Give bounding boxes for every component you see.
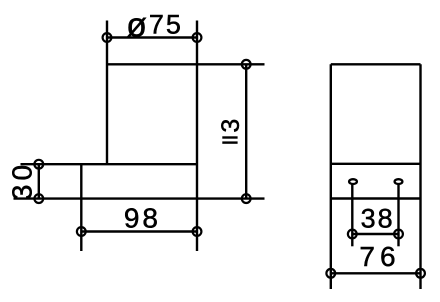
- side view: cup bottom / plate top edge: [331, 163, 421, 165]
- dimension 113 bottom terminator circle: [242, 194, 251, 203]
- dimension 38 right extension line: [397, 185, 399, 247]
- dimension ø75 right terminator circle: [193, 33, 202, 42]
- dimension 98 line: [81, 230, 197, 232]
- svg-text:ø75: ø75: [126, 7, 183, 45]
- svg-text:76: 76: [359, 241, 400, 272]
- svg-text:38: 38: [361, 204, 395, 234]
- dimension 38 left extension line: [351, 185, 353, 247]
- svg-text:98: 98: [124, 202, 161, 233]
- dimension 30 top terminator circle: [34, 160, 43, 169]
- dimension 98 left terminator circle: [77, 227, 86, 236]
- dimension 76 right terminator circle: [416, 269, 425, 278]
- dimension ø75 left terminator circle: [103, 33, 112, 42]
- dimension 98 right terminator circle: [193, 227, 202, 236]
- side view: right edge + 76 right extension line: [419, 64, 421, 289]
- dimension 76 left terminator circle: [326, 269, 335, 278]
- dimension 38 right terminator circle: [394, 230, 403, 239]
- side view: left edge + 76 left extension line: [330, 64, 332, 289]
- front view: cup top edge + 113 top extension line: [107, 63, 265, 65]
- dimension 76 line: [331, 272, 421, 274]
- dimension 113 line: [245, 64, 247, 198]
- front view: cup right wall + plate right edge + 98 right extension line: [196, 21, 198, 252]
- side view: top edge: [331, 63, 421, 65]
- dimension 113 top terminator circle: [242, 60, 251, 69]
- side view: plate bottom edge: [331, 197, 421, 199]
- dimension 30 line: [38, 164, 40, 198]
- front view: cup left wall + ø75 left extension line: [106, 21, 108, 165]
- side view: left mounting slot: [349, 179, 357, 184]
- dimension 38 line: [352, 233, 398, 235]
- front view: plate bottom edge + 30 bottom extension + 113 bottom extension line: [14, 197, 265, 199]
- svg-text:3: 3: [217, 119, 245, 133]
- dimension 38 left terminator circle: [348, 230, 357, 239]
- side view: right mounting slot: [395, 179, 403, 184]
- dimension ø75 line: [107, 36, 197, 38]
- front view: plate left edge + 98 left extension line: [80, 164, 82, 251]
- dimension 113 label digit 1 (lower bar): [222, 141, 237, 143]
- dimension 30 bottom terminator circle: [34, 194, 43, 203]
- dimension 113 label digit 1 (upper bar): [222, 136, 237, 138]
- svg-text:30: 30: [6, 161, 37, 200]
- front view: plate top edge + 30 top extension line: [21, 163, 198, 165]
